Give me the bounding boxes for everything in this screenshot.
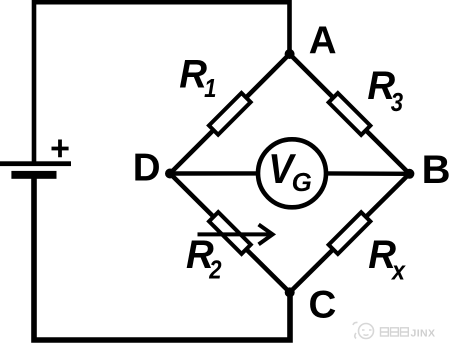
resistor R3 body <box>329 93 371 135</box>
svg-text:G: G <box>292 167 312 197</box>
node B junction dot <box>404 169 414 179</box>
battery B1: long positive plate <box>0 161 71 166</box>
resistor R2 body (variable) <box>209 212 251 254</box>
svg-text:B: B <box>422 148 449 192</box>
node A junction dot <box>285 49 295 59</box>
node D junction dot <box>165 169 175 179</box>
resistor Rx body <box>329 212 371 254</box>
battery B1: plus sign <box>52 140 69 158</box>
wire: node D to galvanometer <box>170 171 258 176</box>
svg-text:C: C <box>309 284 337 327</box>
svg-text:JINX: JINX <box>411 327 436 339</box>
watermark text 调皮的JINX <box>381 328 409 336</box>
resistor R1 body <box>209 93 251 135</box>
wire: bottom loop (left vertical from battery, bottom horizontal, right rise to node C) <box>34 179 290 341</box>
svg-text:D: D <box>133 146 161 189</box>
node C junction dot <box>285 287 295 297</box>
svg-text:x: x <box>390 258 406 286</box>
svg-text:3: 3 <box>391 88 404 117</box>
battery B1: short negative plate <box>11 171 56 179</box>
wire: bridge arm D-A <box>170 54 290 174</box>
wire: bridge arm D-C <box>170 174 290 293</box>
galvanometer VG circle <box>258 139 326 207</box>
svg-text:1: 1 <box>204 74 216 103</box>
wire: galvanometer to node B <box>326 171 409 176</box>
watermark icon (faint mascot face) <box>353 322 374 338</box>
wire: top loop (left vertical down to battery, top horizontal, right drop to node A) <box>34 2 290 161</box>
svg-text:2: 2 <box>208 256 222 285</box>
R2 wiper arrow <box>198 225 273 245</box>
svg-text:A: A <box>309 20 337 63</box>
wire: bridge arm A-B <box>290 54 410 174</box>
wire: bridge arm C-B <box>290 174 410 293</box>
